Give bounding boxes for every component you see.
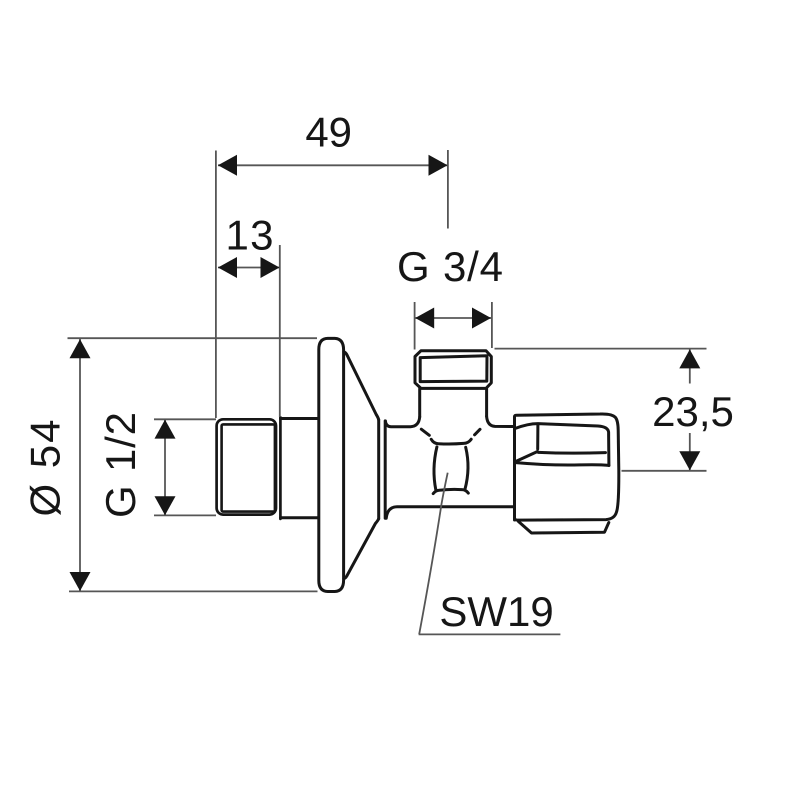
svg-text:SW19: SW19 — [439, 588, 553, 635]
dim 49 line — [218, 164, 448, 166]
arrowhead G3/4 right — [472, 308, 491, 329]
dim 23,5 ext line top — [495, 348, 707, 350]
body top edge left of outlet pipe with fillets — [385, 417, 419, 427]
handle inner face left vertical — [536, 424, 539, 449]
arrowhead 13 right — [261, 257, 280, 278]
dim 23,5 tail bottom — [689, 433, 691, 470]
handle inner face top and right — [515, 424, 609, 466]
svg-text:23,5: 23,5 — [652, 388, 734, 435]
dim dia54 ext line top — [68, 337, 318, 339]
dim 23,5 tail top — [689, 349, 691, 383]
SW19 underline — [419, 633, 561, 635]
SW19 nut top line — [431, 439, 471, 444]
dim 49 ext line right — [447, 150, 449, 229]
arrowhead 13 left — [218, 257, 237, 278]
valve inlet body cylinder — [280, 417, 317, 519]
arrowhead 49 left — [218, 155, 237, 176]
dim G3/4 line — [415, 317, 491, 319]
dim G3/4 ext line left — [414, 302, 416, 350]
rosette flange face — [319, 338, 344, 591]
outlet pipe left edge — [418, 389, 421, 417]
dim G3/4 ext line right — [491, 302, 493, 348]
svg-text:13: 13 — [226, 212, 274, 259]
arrowhead dia54 top — [70, 339, 91, 358]
dim dia54 line — [79, 339, 81, 591]
dim 13 ext line right — [279, 245, 281, 417]
handle bottom chamfer cap — [519, 522, 609, 534]
SW19 nut right side — [465, 447, 468, 489]
handle inner back bottom line — [539, 451, 606, 455]
SW19 nut left side — [434, 447, 437, 490]
dim 49 ext line left — [215, 151, 217, 419]
G3/4 collar inner thread rect — [420, 356, 487, 382]
handle inner front bottom line — [516, 463, 609, 466]
flare dash left — [421, 429, 429, 435]
arrowhead dia54 bottom — [70, 572, 91, 591]
handle outer outline — [515, 414, 619, 520]
flare dash right — [475, 429, 480, 435]
body top edge right of outlet pipe with fillet — [487, 416, 514, 426]
outlet pipe right edge — [485, 389, 488, 416]
dim dia54 ext line bottom — [69, 590, 318, 592]
handle inner step diagonal — [515, 452, 537, 462]
svg-text:49: 49 — [305, 109, 352, 156]
dim G1/2 ext line top — [154, 418, 216, 420]
arrowhead G1/2 top — [155, 420, 176, 439]
dim G1/2 ext line bottom — [154, 514, 216, 516]
arrowhead G3/4 left — [415, 308, 434, 329]
arrowhead 23,5 top — [679, 349, 700, 368]
rosette cone top edge — [344, 352, 379, 420]
arrowhead G1/2 bottom — [155, 496, 176, 515]
svg-text:Ø 54: Ø 54 — [22, 420, 69, 517]
dim 13 line — [218, 267, 280, 269]
SW19 nut bottom line — [433, 489, 468, 493]
rosette cone bottom edge — [344, 519, 379, 579]
body bottom edge with neck fillet — [386, 507, 514, 519]
SW19 leader line — [419, 473, 448, 635]
svg-text:G 3/4: G 3/4 — [397, 243, 503, 290]
dim G1/2 line — [164, 420, 166, 516]
dim 23,5 ext line bottom — [622, 470, 707, 472]
arrowhead 23,5 bottom — [679, 451, 700, 470]
G1/2 male thread outer rounded rect — [217, 419, 276, 514]
rosette neck rim lines — [379, 420, 386, 519]
arrowhead 49 right — [429, 155, 448, 176]
G3/4 outlet thread collar outer — [415, 351, 491, 389]
G1/2 thread root inner rect — [222, 424, 275, 511]
svg-text:G 1/2: G 1/2 — [97, 412, 144, 518]
